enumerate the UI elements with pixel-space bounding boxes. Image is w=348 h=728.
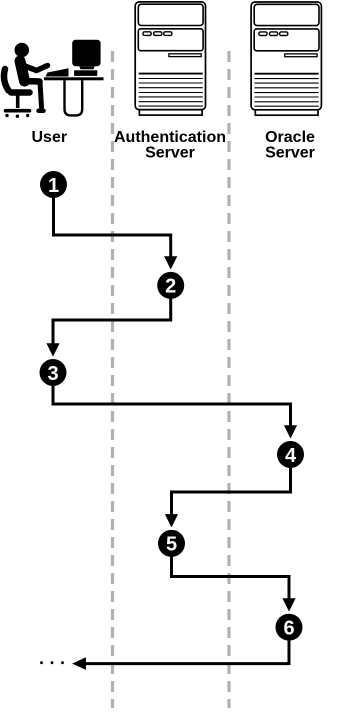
lifeline: auth/oracle boundary (dashed) xyxy=(227,51,230,708)
node 2 xyxy=(157,272,184,299)
arrowhead into node 2 xyxy=(164,256,177,269)
svg-text:1: 1 xyxy=(48,175,59,197)
arrowhead pointing left (continuation) xyxy=(72,657,86,670)
authentication server icon xyxy=(135,2,205,115)
label: Authentication Server xyxy=(114,129,226,161)
label: Oracle Server xyxy=(265,129,315,161)
wire 3→4 xyxy=(53,385,291,426)
wire 6→continuation xyxy=(85,640,289,664)
svg-text:Server: Server xyxy=(145,144,195,161)
arrowhead into node 5 xyxy=(165,514,178,527)
wire 4→5 xyxy=(172,467,291,515)
svg-text:4: 4 xyxy=(285,445,297,467)
svg-text:2: 2 xyxy=(165,276,176,298)
svg-text:5: 5 xyxy=(166,534,177,556)
oracle server icon xyxy=(251,2,321,115)
node 4 xyxy=(277,441,304,468)
svg-text:User: User xyxy=(32,129,68,146)
node 6 xyxy=(276,614,303,641)
svg-text:6: 6 xyxy=(283,618,294,640)
user icon (person at desk with computer) xyxy=(4,40,104,118)
node 1 xyxy=(40,171,67,198)
svg-text:3: 3 xyxy=(47,363,58,385)
ellipsis dots (continuation) xyxy=(40,661,64,664)
wire 2→3 xyxy=(53,298,171,344)
wire 1→2 xyxy=(54,197,171,257)
arrowhead into node 4 xyxy=(284,425,297,438)
arrowhead into node 6 xyxy=(282,598,295,611)
node 5 xyxy=(158,530,185,557)
node 3 xyxy=(40,359,67,386)
arrowhead into node 3 xyxy=(46,343,59,356)
lifeline: user/auth boundary (dashed) xyxy=(111,51,114,708)
svg-text:Server: Server xyxy=(265,144,315,161)
wire 5→6 xyxy=(172,556,290,599)
